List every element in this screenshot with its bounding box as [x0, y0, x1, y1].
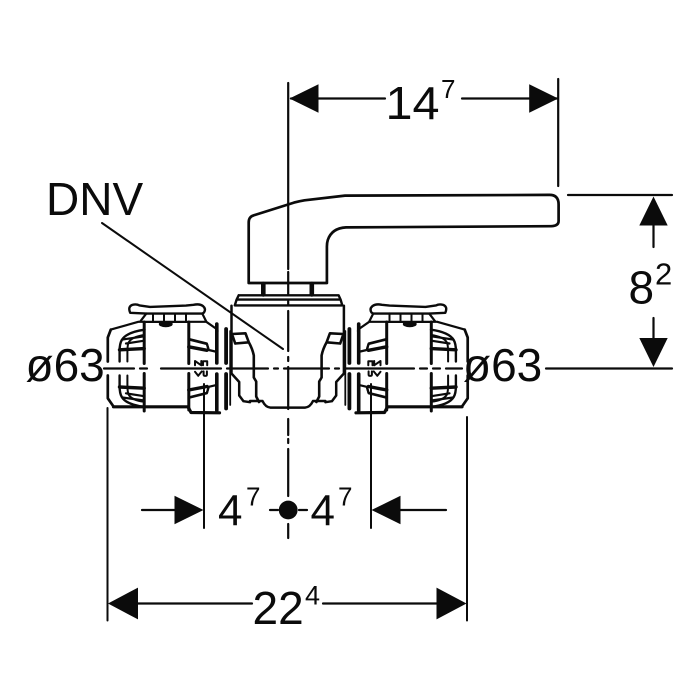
cap skirt [111, 314, 217, 330]
cap ticks [153, 313, 186, 321]
svg-text:2: 2 [655, 257, 672, 292]
valve body [232, 306, 344, 408]
upper left wing slot [123, 336, 145, 343]
svg-text:7: 7 [338, 482, 352, 512]
svg-text:DNV: DNV [46, 173, 143, 225]
C-bracket outer [144, 321, 189, 323]
label ø63 left [26, 339, 105, 391]
top cap [129, 304, 205, 313]
insertion-depth mark icon [195, 361, 207, 376]
outer shell [108, 329, 218, 407]
leader line from DNV to valve body [102, 223, 283, 349]
svg-text:ø63: ø63 [26, 339, 105, 391]
svg-text:8: 8 [629, 262, 655, 314]
sleeve top notch [161, 324, 171, 325]
lower right wing slot [189, 387, 209, 398]
dimension 22^4 (overall length) [108, 408, 468, 634]
dimension 4^7 4^7 (insertion depths) [142, 384, 446, 536]
svg-text:ø63: ø63 [463, 339, 542, 391]
C-bracket inner [127, 335, 144, 402]
svg-text:22: 22 [253, 582, 304, 634]
lever handle [249, 195, 559, 283]
stem flange (valve top cap) [235, 295, 342, 305]
sleeve vertical edges [144, 322, 189, 411]
label ø63 right [463, 339, 542, 391]
lever stems [263, 284, 312, 295]
collet shoulder [189, 340, 215, 398]
svg-text:7: 7 [441, 74, 455, 104]
left fitting (push-fit connector) [108, 304, 230, 412]
label DNV [46, 173, 143, 225]
lower left wing slot [123, 393, 145, 400]
ring bar A [215, 324, 219, 411]
svg-text:4: 4 [311, 487, 335, 536]
horizontal centerline of pipe axis [104, 367, 672, 369]
bottom edge [114, 407, 220, 413]
dimension 14^7 (centre to lever end) [290, 74, 559, 186]
vertical centerline / axis of valve stem [287, 83, 289, 538]
svg-text:4: 4 [218, 487, 242, 536]
upper right wing slot [189, 339, 209, 350]
svg-text:14: 14 [386, 77, 440, 129]
svg-text:7: 7 [246, 482, 260, 512]
dimension 8^2 (lever height above axis) [568, 195, 672, 367]
svg-text:4: 4 [305, 581, 320, 611]
ring bar B [224, 329, 228, 409]
ring thin lines [229, 331, 231, 405]
right fitting (mirror image) [345, 304, 467, 412]
